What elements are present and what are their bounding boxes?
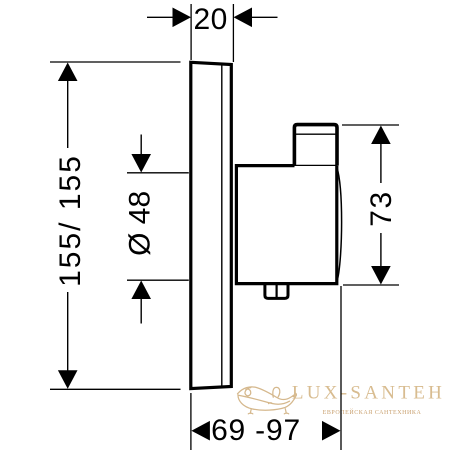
- svg-text:ЕВРОПЕЙСКАЯ САНТЕХНИКА: ЕВРОПЕЙСКАЯ САНТЕХНИКА: [323, 408, 422, 416]
- dimension 73 : bottom arrow (points down): [371, 266, 391, 285]
- knob (stop valve handle): [294, 125, 337, 166]
- svg-text:69 -97: 69 -97: [211, 414, 301, 447]
- dimension 20 : extension lines: [191, 4, 233, 62]
- dimension 69-97 : right arrow (points right): [322, 421, 341, 441]
- dimension 155/155 : bottom arrow: [58, 370, 78, 389]
- knob inner line: [296, 133, 337, 135]
- watermark group: [238, 383, 446, 416]
- dimension 73 : top arrow (points up): [371, 126, 391, 145]
- svg-text:Ø 48: Ø 48: [124, 191, 157, 256]
- dimension O48 : top arrow (points down): [131, 154, 151, 173]
- valve body: [236, 166, 336, 284]
- dimension 155/155 : top arrow: [58, 63, 78, 82]
- svg-text:LUX-SANTEH: LUX-SANTEH: [292, 383, 445, 404]
- dimension 20 : right arrow: [234, 8, 253, 28]
- dimension 73 : extension lines: [342, 125, 399, 285]
- dimension O48 : bottom arrow (points up): [131, 281, 151, 300]
- dimension 69-97 : left arrow (points left): [191, 421, 210, 441]
- bottom tab: [265, 285, 288, 299]
- knob front bulge curve: [337, 167, 342, 282]
- dimension 20 : left arrow: [173, 8, 192, 28]
- tab divider: [276, 284, 278, 297]
- dimension 69-97 : extension lines: [191, 286, 341, 450]
- dimension 155/155 : stems: [67, 80, 69, 371]
- body top edge under knob (thin): [295, 164, 337, 166]
- dimension O48 : extension lines: [127, 173, 189, 280]
- dimension 155/155 : extension lines: [50, 62, 181, 389]
- plate inner edge line: [221, 64, 223, 387]
- dimension 73 : stems: [380, 143, 382, 267]
- watermark tub drawing: [238, 387, 297, 414]
- svg-text:20: 20: [194, 3, 228, 36]
- svg-text:73: 73: [365, 190, 398, 226]
- escutcheon plate (side view): [191, 62, 232, 388]
- svg-text:155/ 155: 155/ 155: [54, 154, 87, 287]
